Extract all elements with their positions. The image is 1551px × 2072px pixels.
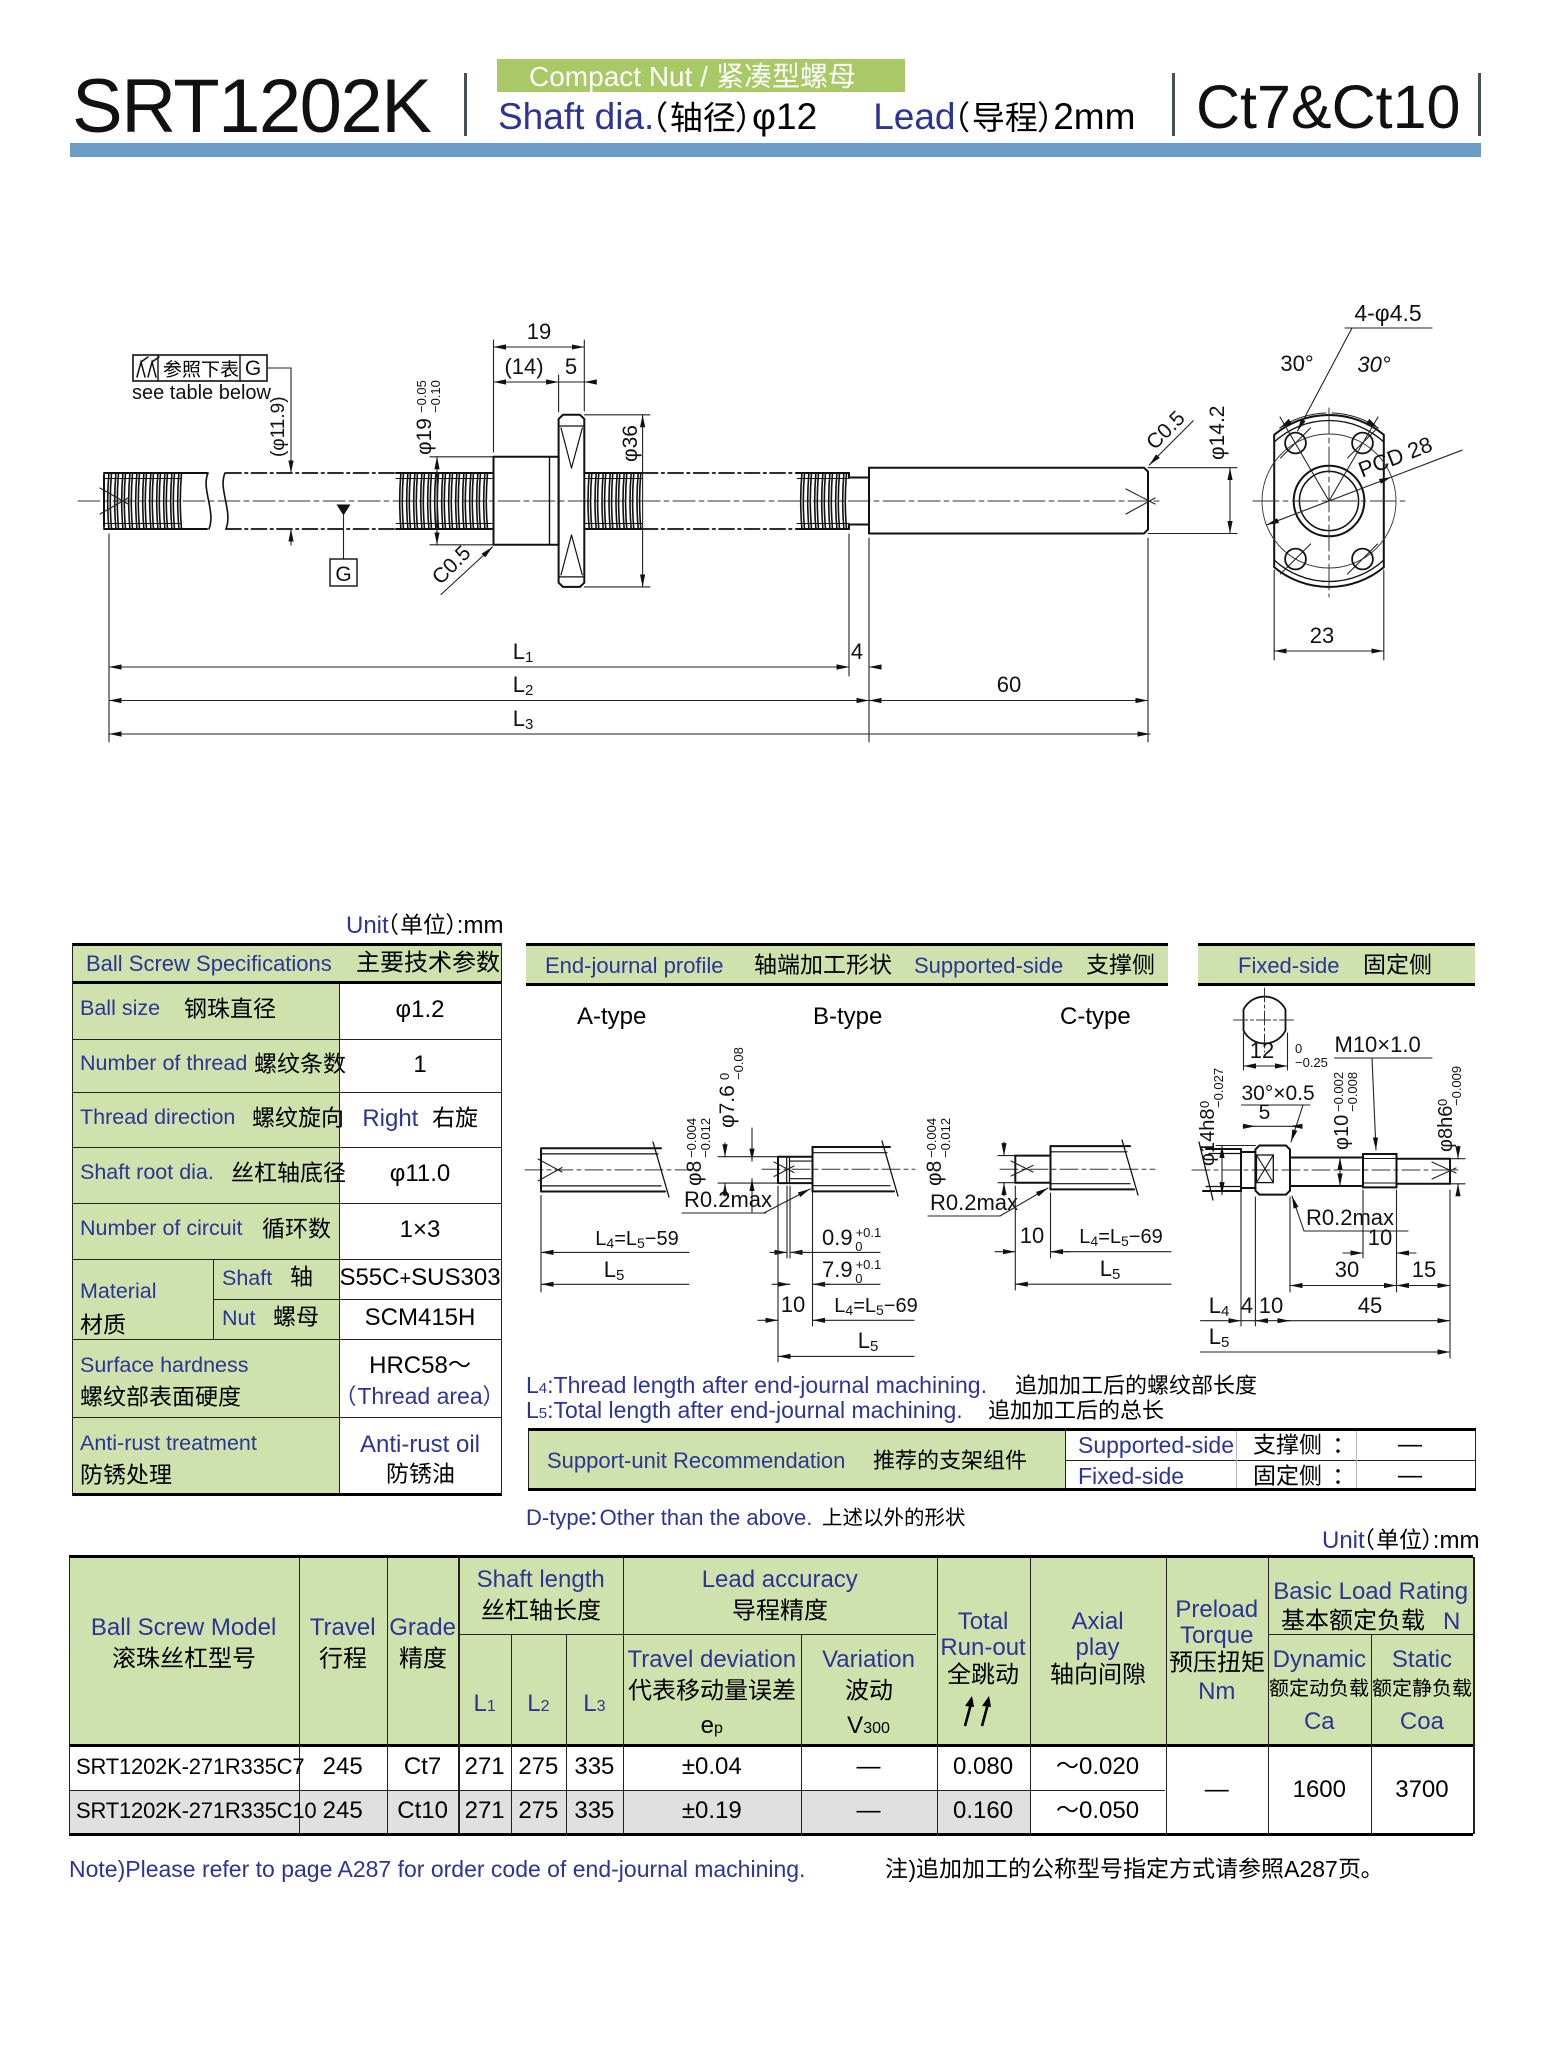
svg-text:R0.2max: R0.2max (930, 1190, 1018, 1215)
dim phi10 tol (1339, 1158, 1341, 1187)
svg-text:19: 19 (527, 319, 551, 344)
svg-text:23: 23 (1310, 623, 1334, 648)
fixed-side L5 line (1201, 1351, 1451, 1353)
second thread section entering nut (396, 472, 492, 474)
svg-text:G: G (245, 357, 261, 380)
dim (14) and 5 (558, 375, 560, 412)
C0.5 nut chamfer (441, 548, 492, 595)
flange centerlines (1328, 408, 1330, 597)
extension lines bottom dims (108, 534, 110, 742)
svg-text:G: G (335, 563, 351, 586)
left screw thread section (104, 472, 180, 474)
svg-text:−0.05: −0.05 (414, 380, 429, 413)
header divider 3 (1478, 73, 1481, 136)
svg-text:M10×1.0: M10×1.0 (1335, 1032, 1421, 1057)
screw thread stub (1206, 1148, 1241, 1150)
left end center mark (100, 488, 129, 505)
svg-text:φ7.6: φ7.6 (716, 1085, 739, 1128)
B-type phi7.6 dim (751, 1128, 753, 1161)
main drawing: ball screw centerline (78, 500, 1162, 502)
fixed-side profile centerline (1192, 1169, 1462, 1171)
end journal (60mm) (869, 468, 1148, 534)
nut body (494, 457, 559, 545)
svg-text:L4: L4 (1209, 1293, 1230, 1320)
svg-text:C0.5: C0.5 (428, 541, 476, 589)
svg-text:−0.012: −0.012 (938, 1118, 953, 1158)
C-type dims (1014, 1186, 1016, 1290)
dim phi36 (584, 414, 650, 416)
svg-text:0.9+0.10: 0.9+0.10 (822, 1225, 881, 1254)
fixed-side dims 30/15 (1289, 1197, 1291, 1292)
C-type journal drawing (1000, 1168, 1155, 1170)
B-type thread part (790, 1156, 813, 1158)
fixed-side header bar (1198, 943, 1475, 986)
spec row: anti-rust (80, 1431, 257, 1456)
svg-text:R0.2max: R0.2max (684, 1187, 772, 1212)
svg-text:L5: L5 (1209, 1324, 1230, 1351)
spec row: number of circuit (80, 1216, 243, 1241)
model table data row 2 (76, 1798, 316, 1824)
14h8 bearing seat (1255, 1146, 1290, 1195)
bolt holes 4-phi4.5 (1285, 433, 1306, 454)
spec row: ball size (80, 996, 160, 1021)
4mm neck (849, 477, 869, 479)
fixed-side L4 line (1240, 1192, 1242, 1326)
svg-text:see table below: see table below (132, 382, 272, 404)
spec row: thread direction (80, 1105, 235, 1130)
dim 12 (1243, 1033, 1245, 1070)
L5 note (526, 1397, 1164, 1424)
dim 60 (869, 700, 1148, 702)
svg-text:30°×0.5: 30°×0.5 (1242, 1082, 1315, 1105)
svg-text:−0.027: −0.027 (1211, 1068, 1226, 1108)
svg-text:φ14h8: φ14h8 (1197, 1109, 1219, 1166)
svg-text:(φ11.9): (φ11.9) (268, 396, 289, 457)
phantom section right (643, 472, 797, 474)
fixed-side end view circle (1244, 997, 1286, 1044)
dim phi19 (430, 456, 494, 458)
A-type journal drawing (525, 1169, 688, 1171)
spec row: surface hardness (80, 1353, 249, 1378)
svg-text:L4=L5−59: L4=L5−59 (595, 1228, 678, 1251)
30 deg arcs (1280, 413, 1326, 428)
G mark triangle (337, 505, 351, 516)
svg-text:−0.25: −0.25 (1295, 1055, 1328, 1070)
unit note (mm) above spec table (346, 912, 503, 940)
svg-text:L3: L3 (513, 706, 534, 733)
svg-text:L4=L5−69: L4=L5−69 (834, 1295, 917, 1318)
4mm collar (1241, 1151, 1255, 1153)
flange center bore (1294, 466, 1365, 537)
header divider 2 (1172, 73, 1175, 136)
svg-text:10: 10 (1368, 1225, 1392, 1250)
svg-text:L5: L5 (604, 1257, 625, 1284)
page header: model name SRT1202K (72, 63, 430, 150)
leader from callout to dim (267, 367, 291, 369)
svg-text:7.9+0.10: 7.9+0.10 (822, 1257, 881, 1286)
dim (phi11.9) (290, 368, 292, 473)
B-type main shaft (812, 1147, 814, 1191)
nut flange (559, 415, 585, 587)
svg-text:0: 0 (1295, 1041, 1302, 1056)
svg-text:−0.004: −0.004 (684, 1118, 699, 1158)
svg-text:4: 4 (1241, 1293, 1253, 1318)
total run-out symbol (962, 1694, 1004, 1728)
phi8h6 end section (1397, 1158, 1451, 1160)
svg-text:10: 10 (1020, 1223, 1044, 1248)
B-type phi8 dim (718, 1156, 778, 1158)
svg-text:C0.5: C0.5 (1142, 407, 1190, 455)
svg-text:30°: 30° (1280, 351, 1313, 376)
break symbol (206, 473, 211, 529)
dim phi8h6 (1450, 1158, 1465, 1160)
bolt circle PCD28 (1262, 434, 1396, 568)
green highlight: Compact Nut (497, 59, 905, 92)
dim 4 (838, 666, 849, 668)
svg-text:10: 10 (1259, 1293, 1283, 1318)
svg-text:φ14.2: φ14.2 (1206, 406, 1229, 461)
flange end view outline (1274, 415, 1384, 587)
merged cells (1166, 1776, 1269, 1804)
dim L1 (109, 666, 849, 668)
flange facets (561, 428, 572, 468)
C-type phi8 dim (998, 1155, 1015, 1157)
fixed-side dim 10 (1362, 1190, 1364, 1258)
dim 23 (1273, 570, 1275, 660)
svg-text:−0.009: −0.009 (1449, 1066, 1464, 1106)
fourth thread section (797, 472, 849, 474)
svg-text:L5: L5 (858, 1328, 879, 1355)
svg-text:30°: 30° (1357, 352, 1390, 377)
dim 19 (493, 340, 495, 452)
phi10 shaft section (1290, 1157, 1363, 1159)
model table header (69, 1614, 299, 1642)
svg-text:0: 0 (1197, 1101, 1212, 1108)
right end center mark (1126, 489, 1155, 504)
surface finish callout box (133, 355, 267, 381)
support-unit recommendation table (528, 1428, 1476, 1491)
svg-text:5: 5 (565, 354, 577, 379)
svg-text:L2: L2 (513, 672, 534, 699)
svg-text:L1: L1 (513, 639, 534, 666)
B-type dims 0.9/7.9/10/L4/L5 (786, 1186, 788, 1258)
unit note (mm) above model table (1322, 1527, 1479, 1555)
PCD 28 dimension (1266, 477, 1391, 525)
svg-text:12: 12 (1250, 1038, 1274, 1063)
M10 thread section (1363, 1153, 1397, 1155)
svg-text:−0.012: −0.012 (698, 1118, 713, 1158)
svg-text:L5: L5 (1100, 1256, 1121, 1283)
end-journal profile header bar (526, 943, 1168, 986)
30 deg hole axes (1280, 417, 1329, 501)
ball screw specifications table (72, 945, 502, 1495)
svg-text:−0.002: −0.002 (1331, 1072, 1346, 1112)
A-type label (577, 1003, 646, 1031)
svg-text:−0.004: −0.004 (924, 1118, 939, 1158)
ball screw model table (69, 1557, 1474, 1746)
spec table header (86, 951, 332, 977)
svg-text:L4=L5−69: L4=L5−69 (1079, 1226, 1162, 1249)
thread right of flange (584, 472, 642, 474)
dim 5 (1243, 1125, 1255, 1127)
svg-text:−0.008: −0.008 (1345, 1072, 1360, 1112)
spec table borders (72, 943, 502, 946)
accuracy grade Ct7&Ct10 (1196, 72, 1460, 142)
svg-text:(14): (14) (504, 354, 543, 379)
plain shaft to break (180, 472, 207, 474)
D-type note (526, 1505, 966, 1531)
svg-text:φ8: φ8 (683, 1161, 706, 1186)
dim phi14.2 (1148, 467, 1237, 469)
svg-text:45: 45 (1358, 1293, 1382, 1318)
svg-text:φ10: φ10 (1331, 1115, 1353, 1150)
bearing symbol box (1257, 1155, 1274, 1183)
dim phi14h8 (1221, 1146, 1223, 1195)
svg-text:5: 5 (1259, 1101, 1271, 1124)
svg-text:10: 10 (781, 1292, 805, 1317)
spec row: material (80, 1279, 156, 1304)
svg-text:0: 0 (1435, 1099, 1450, 1106)
header subtitle: shaft dia and lead (498, 96, 1135, 138)
model table data row 1 (76, 1754, 304, 1780)
phantom mid section (threads omitted) (226, 472, 396, 474)
svg-text:φ8h6: φ8h6 (1435, 1106, 1457, 1152)
B-type label (813, 1003, 882, 1031)
A-type dims (540, 1196, 542, 1293)
svg-text:15: 15 (1412, 1257, 1436, 1282)
spec row: number of thread (80, 1051, 247, 1076)
L4 note (526, 1372, 1257, 1399)
svg-text:0: 0 (717, 1073, 732, 1080)
blue title bar (70, 143, 1481, 157)
svg-text:60: 60 (997, 672, 1021, 697)
C0.5 journal chamfer (1154, 421, 1194, 461)
svg-text:4-φ4.5: 4-φ4.5 (1354, 300, 1421, 326)
B-type journal drawing (762, 1168, 915, 1170)
svg-text:−0.08: −0.08 (731, 1047, 746, 1080)
svg-text:−0.10: −0.10 (428, 380, 443, 413)
svg-text:φ36: φ36 (619, 425, 642, 462)
header divider 1 (464, 73, 467, 136)
dim L3 (109, 733, 1150, 735)
svg-text:φ19: φ19 (413, 418, 436, 455)
svg-text:φ8: φ8 (923, 1161, 946, 1186)
svg-text:30: 30 (1335, 1257, 1359, 1282)
bottom note (69, 1856, 1373, 1883)
dim L2 (109, 700, 869, 702)
C-type label (1060, 1003, 1131, 1031)
svg-text:4: 4 (851, 639, 863, 664)
spec row: shaft root dia (80, 1160, 214, 1185)
